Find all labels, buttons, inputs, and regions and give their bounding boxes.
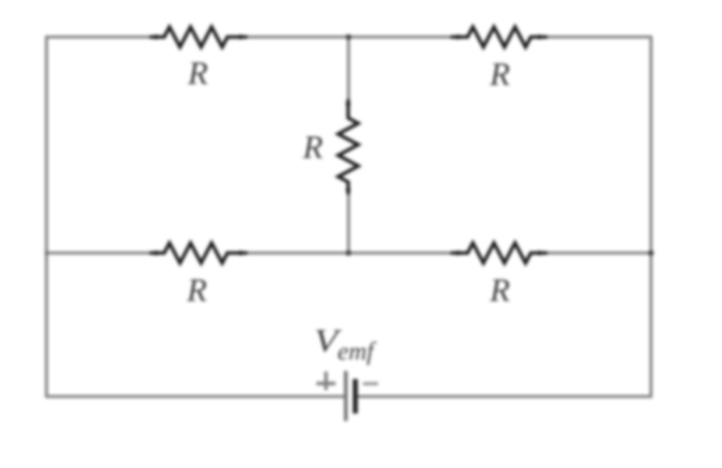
svg-text:R: R xyxy=(186,273,207,309)
resistor R (top-right) xyxy=(452,27,546,47)
svg-text:R: R xyxy=(302,130,323,166)
svg-text:R: R xyxy=(489,273,510,309)
resistor R (middle-right) xyxy=(452,243,546,263)
resistor R (middle-right) lead dot left xyxy=(456,251,461,256)
wire: top rail right segment xyxy=(546,36,652,39)
resistor R (top-right) lead dot left xyxy=(456,35,461,40)
junction: top center node xyxy=(346,34,352,40)
svg-text:emf: emf xyxy=(338,339,377,366)
resistor R (top-right) lead dot right xyxy=(537,35,542,40)
resistor R (top-left) xyxy=(151,27,246,47)
junction: middle right node xyxy=(648,250,654,256)
wire: middle rail right segment xyxy=(546,252,652,255)
label + polarity mark vertical stroke xyxy=(324,372,327,391)
resistor R (top-left) lead dot right xyxy=(238,35,243,40)
svg-text:R: R xyxy=(489,57,510,93)
resistor R (middle-left) lead dot right xyxy=(238,251,243,256)
label - polarity mark xyxy=(363,382,378,385)
wire: bottom rail right segment xyxy=(355,395,652,398)
label + polarity mark horizontal stroke xyxy=(317,382,336,385)
wire: top rail left segment xyxy=(45,36,151,39)
wire: center vertical lower segment xyxy=(347,192,350,253)
wire: center vertical upper segment xyxy=(347,37,350,102)
resistor R (center) lead dot bottom xyxy=(346,188,351,193)
svg-text:R: R xyxy=(187,56,208,92)
resistor R (center vertical) xyxy=(338,101,358,194)
resistor R (middle-left) xyxy=(151,243,246,263)
resistor R (center) lead dot top xyxy=(346,102,351,107)
battery V_emf positive plate (long) xyxy=(344,371,348,421)
wire: right vertical branch xyxy=(650,37,653,397)
junction: middle left node xyxy=(45,251,49,255)
wire: middle rail center segment xyxy=(246,252,452,255)
wire: left vertical branch xyxy=(45,37,48,397)
wire: middle rail left segment xyxy=(45,252,151,255)
resistor R (middle-left) lead dot left xyxy=(154,251,159,256)
wire: top rail middle segment xyxy=(246,36,452,39)
resistor R (middle-right) lead dot right xyxy=(537,251,542,256)
wire: bottom rail left segment xyxy=(45,395,346,398)
resistor R (top-left) lead dot left xyxy=(154,35,159,40)
battery V_emf negative plate (short thick) xyxy=(353,379,358,414)
junction: middle center node xyxy=(346,250,352,256)
